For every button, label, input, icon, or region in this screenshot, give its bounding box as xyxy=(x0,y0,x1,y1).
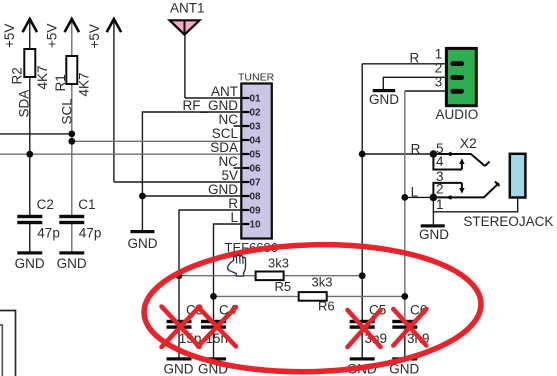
svg-text:05: 05 xyxy=(250,150,262,161)
svg-text:3: 3 xyxy=(435,74,443,89)
svg-text:R: R xyxy=(410,50,420,65)
svg-text:GND: GND xyxy=(369,92,399,107)
svg-text:08: 08 xyxy=(250,192,262,203)
svg-text:2: 2 xyxy=(436,182,444,197)
svg-text:L: L xyxy=(230,210,238,225)
svg-text:R6: R6 xyxy=(318,298,335,313)
svg-text:R: R xyxy=(411,142,421,157)
svg-text:RF_GND: RF_GND xyxy=(182,98,238,113)
svg-text:C1: C1 xyxy=(78,197,95,212)
svg-text:47p: 47p xyxy=(37,226,60,241)
svg-text:06: 06 xyxy=(250,164,262,175)
svg-text:2: 2 xyxy=(435,61,443,76)
svg-text:R1: R1 xyxy=(53,74,68,91)
svg-text:ANT1: ANT1 xyxy=(170,1,205,16)
svg-text:SDA: SDA xyxy=(210,140,238,155)
svg-text:3k3: 3k3 xyxy=(312,275,333,290)
svg-text:SCL: SCL xyxy=(60,98,75,125)
svg-text:3k3: 3k3 xyxy=(268,255,289,270)
svg-text:X2: X2 xyxy=(460,135,477,151)
svg-text:+5V: +5V xyxy=(87,24,102,48)
svg-text:07: 07 xyxy=(250,178,262,189)
svg-text:GND: GND xyxy=(15,256,45,271)
svg-text:4K7: 4K7 xyxy=(35,65,50,89)
svg-text:01: 01 xyxy=(250,94,262,105)
svg-text:+5V: +5V xyxy=(2,24,17,48)
svg-text:R5: R5 xyxy=(275,279,292,294)
svg-text:NC: NC xyxy=(219,112,239,127)
svg-text:4: 4 xyxy=(436,154,444,169)
svg-text:C2: C2 xyxy=(37,197,54,212)
svg-text:47p: 47p xyxy=(79,226,102,241)
svg-text:NC: NC xyxy=(219,154,239,169)
svg-text:02: 02 xyxy=(250,108,262,119)
svg-text:ANT: ANT xyxy=(211,84,238,99)
svg-text:04: 04 xyxy=(250,136,262,147)
svg-text:GND: GND xyxy=(419,227,449,242)
svg-text:AUDIO: AUDIO xyxy=(436,107,479,122)
svg-text:10: 10 xyxy=(250,220,262,231)
svg-text:03: 03 xyxy=(250,122,262,133)
svg-text:R2: R2 xyxy=(10,67,25,84)
svg-text:GND: GND xyxy=(208,182,238,197)
svg-text:R: R xyxy=(228,196,238,211)
svg-text:SCL: SCL xyxy=(212,126,239,141)
svg-text:GND: GND xyxy=(128,236,158,251)
svg-text:SDA: SDA xyxy=(17,90,32,118)
svg-text:GND: GND xyxy=(57,256,87,271)
svg-text:1: 1 xyxy=(435,47,443,62)
svg-text:L: L xyxy=(411,185,419,200)
svg-text:TUNER: TUNER xyxy=(238,72,275,84)
svg-text:STEREOJACK: STEREOJACK xyxy=(463,214,553,229)
svg-text:09: 09 xyxy=(250,206,262,217)
svg-text:+5V: +5V xyxy=(45,24,60,48)
svg-text:4K7: 4K7 xyxy=(77,72,92,96)
svg-text:GND: GND xyxy=(164,361,194,376)
svg-text:1: 1 xyxy=(436,197,444,212)
svg-text:5V: 5V xyxy=(221,168,238,183)
